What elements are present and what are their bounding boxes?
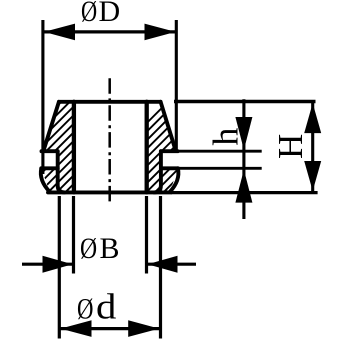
svg-text:d: d xyxy=(96,288,116,327)
svg-text:D: D xyxy=(99,0,121,28)
svg-text:H: H xyxy=(271,134,310,159)
svg-text:Ø: Ø xyxy=(81,0,97,28)
svg-text:h: h xyxy=(206,128,246,146)
svg-text:B: B xyxy=(100,232,120,265)
svg-text:Ø: Ø xyxy=(80,231,97,264)
svg-text:Ø: Ø xyxy=(77,292,93,326)
